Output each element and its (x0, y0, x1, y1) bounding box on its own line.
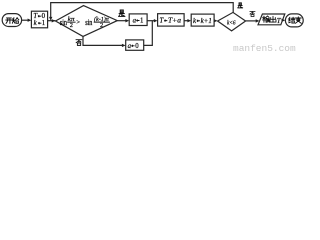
svg-text:sin: sin (85, 18, 92, 27)
svg-text:sin: sin (60, 18, 67, 27)
svg-text:T+a: T+a (168, 18, 182, 25)
svg-text:k<6: k<6 (227, 19, 236, 26)
svg-text:k+1: k+1 (201, 18, 212, 25)
svg-text:manfen5.com: manfen5.com (233, 43, 296, 54)
svg-text:2: 2 (70, 22, 73, 29)
svg-text:0: 0 (42, 13, 46, 20)
svg-text:0: 0 (135, 43, 139, 50)
svg-text:1: 1 (140, 18, 143, 25)
svg-text:a: a (128, 43, 132, 50)
svg-text:a: a (133, 18, 137, 25)
svg-text:2: 2 (100, 22, 103, 29)
svg-text:1: 1 (42, 20, 45, 27)
svg-text:>: > (76, 19, 80, 26)
